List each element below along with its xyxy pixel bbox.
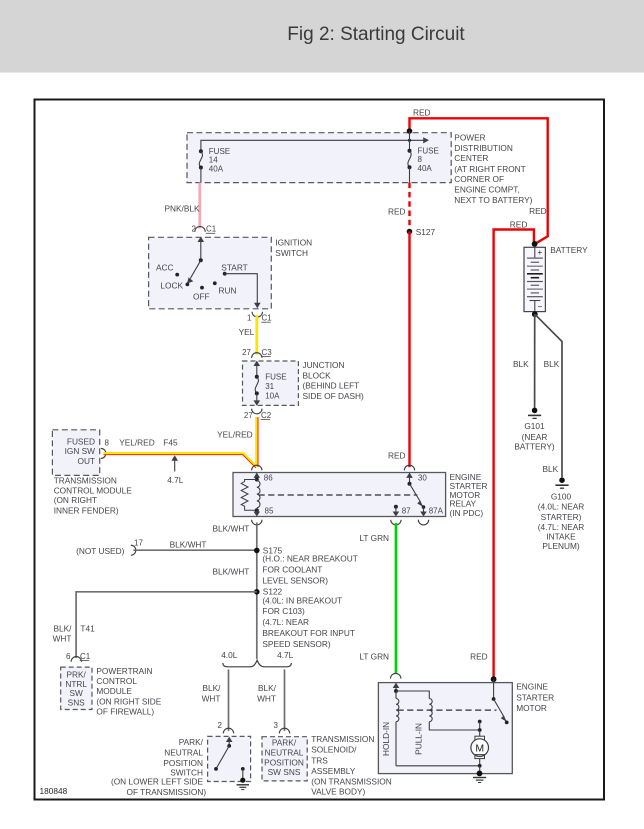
connector arc relay pin 30 — [404, 465, 414, 470]
svg-text:40A: 40A — [418, 164, 433, 173]
relay pin 87A arrow — [420, 507, 443, 517]
svg-text:4.7L: 4.7L — [277, 650, 294, 660]
TRS park neutral sw sns box — [262, 737, 307, 781]
svg-text:DISTRIBUTION: DISTRIBUTION — [454, 143, 513, 153]
connector pin 8 TCM — [101, 438, 110, 458]
svg-text:C1: C1 — [262, 314, 273, 323]
ignition switch label — [275, 238, 312, 258]
svg-text:8: 8 — [418, 155, 423, 164]
svg-text:3: 3 — [274, 721, 279, 730]
connector 17 not used — [76, 539, 143, 557]
label BLK/WHT 4.7L — [257, 683, 277, 703]
relay parallel resistor — [241, 480, 257, 511]
svg-text:M: M — [475, 742, 484, 754]
G100 label — [538, 491, 585, 551]
TCM label — [54, 476, 133, 516]
wire RED S127 to relay pin 30 — [408, 232, 410, 468]
node battery positive — [532, 241, 538, 247]
svg-text:STARTER: STARTER — [516, 692, 554, 702]
svg-text:FOR COOLANT: FOR COOLANT — [262, 565, 322, 575]
svg-text:TRANSMISSION: TRANSMISSION — [54, 476, 117, 486]
svg-text:(ON RIGHT SIDE: (ON RIGHT SIDE — [96, 697, 161, 707]
svg-text:BLK/: BLK/ — [258, 683, 277, 693]
park neutral switch arrow — [226, 737, 233, 748]
svg-text:(H.O.: NEAR BREAKOUT: (H.O.: NEAR BREAKOUT — [262, 554, 357, 564]
label BLK/WHT PCM branch — [53, 624, 73, 644]
PDC internal bus wire with arrow — [201, 137, 429, 151]
svg-text:LT GRN: LT GRN — [359, 533, 389, 543]
svg-text:SPEED SENSOR): SPEED SENSOR) — [262, 639, 330, 649]
label YEL/RED vertical wire — [217, 429, 253, 439]
svg-text:C1: C1 — [80, 652, 91, 661]
wire BLK/WHT 4.7L branch — [284, 669, 286, 731]
relay switch blade — [410, 484, 426, 509]
svg-text:VALVE BODY): VALVE BODY) — [311, 786, 365, 796]
connector arc relay pin 87 — [391, 520, 401, 525]
label BLK/WHT not used wire — [170, 539, 207, 549]
svg-text:WHT: WHT — [53, 634, 72, 644]
svg-text:IGNITION: IGNITION — [275, 238, 312, 248]
svg-text:TRS: TRS — [311, 755, 328, 765]
svg-text:WHT: WHT — [257, 693, 276, 703]
park neutral switch ground contact — [241, 767, 245, 780]
battery — [524, 247, 545, 311]
label BLK/WHT below relay — [213, 524, 250, 534]
svg-text:FUSED: FUSED — [67, 437, 95, 447]
svg-text:86: 86 — [264, 474, 273, 483]
park neutral position switch box — [208, 736, 251, 781]
svg-text:G100: G100 — [551, 491, 572, 501]
svg-text:RED: RED — [388, 206, 406, 216]
fuse 14 value label — [209, 147, 230, 174]
junction block box — [243, 361, 299, 405]
label RED right vertical — [529, 206, 547, 216]
svg-text:6: 6 — [66, 652, 71, 661]
svg-text:ENGINE: ENGINE — [516, 681, 548, 691]
svg-text:LOCK: LOCK — [160, 281, 183, 291]
svg-text:(BEHIND LEFT: (BEHIND LEFT — [303, 381, 360, 391]
svg-text:85: 85 — [265, 506, 274, 515]
label 4.0L branch — [221, 650, 238, 660]
wire RED dashed fuse8 to S127 — [408, 183, 410, 230]
svg-text:+: + — [538, 248, 543, 257]
svg-text:(IN PDC): (IN PDC) — [450, 508, 484, 518]
label RED battery horizontal — [510, 220, 528, 230]
svg-text:STARTER): STARTER) — [541, 512, 582, 522]
starter relay box — [233, 473, 446, 517]
relay dashed actuation line — [259, 494, 418, 496]
svg-text:HOLD-IN: HOLD-IN — [381, 722, 391, 756]
relay label — [450, 472, 488, 518]
svg-text:POSITION: POSITION — [264, 757, 304, 767]
ground park neutral switch — [237, 778, 249, 790]
ground G100 — [555, 477, 568, 488]
PCM label — [96, 666, 161, 716]
svg-text:180848: 180848 — [40, 786, 68, 796]
label YEL/RED F45 — [119, 437, 178, 447]
svg-text:CONTROL MODULE: CONTROL MODULE — [54, 485, 133, 495]
svg-text:YEL: YEL — [239, 327, 255, 337]
label LT GRN lower — [359, 651, 389, 661]
starter motor label — [516, 681, 554, 713]
starter switch blade — [494, 699, 509, 724]
wire RED battery to long right drop — [494, 230, 534, 680]
svg-text:TRANSMISSION: TRANSMISSION — [311, 734, 374, 744]
label RED top — [413, 108, 431, 118]
label YEL — [239, 327, 255, 337]
diagram border frame — [35, 100, 605, 800]
svg-text:ENGINE COMPT,: ENGINE COMPT, — [454, 185, 519, 195]
svg-text:C3: C3 — [262, 348, 273, 357]
svg-text:2: 2 — [218, 721, 223, 730]
label RED starter feed — [470, 651, 488, 661]
G101 label — [514, 421, 554, 452]
svg-text:RED: RED — [388, 450, 406, 460]
svg-text:CONTROL: CONTROL — [96, 676, 137, 686]
label BLK G100 wire — [543, 464, 559, 474]
svg-text:31: 31 — [265, 382, 274, 391]
wire BLK battery to G101 — [534, 314, 536, 408]
svg-text:INTAKE: INTAKE — [546, 531, 576, 541]
svg-text:BLK: BLK — [544, 359, 560, 369]
splice S175 — [254, 546, 283, 556]
svg-text:OF FIREWALL): OF FIREWALL) — [96, 707, 154, 717]
svg-text:(ON LOWER LEFT SIDE: (ON LOWER LEFT SIDE — [111, 776, 204, 786]
svg-text:RED: RED — [413, 108, 431, 118]
contact OFF — [193, 286, 210, 302]
svg-text:(4.0L: NEAR: (4.0L: NEAR — [538, 502, 585, 512]
svg-text:4.7L: 4.7L — [167, 475, 184, 485]
svg-text:NEUTRAL: NEUTRAL — [265, 748, 304, 758]
fuse 31 value label — [265, 373, 286, 401]
battery label — [550, 245, 588, 255]
svg-text:SWITCH: SWITCH — [275, 248, 308, 258]
svg-text:YEL/RED: YEL/RED — [119, 437, 155, 447]
svg-text:BLK/WHT: BLK/WHT — [213, 524, 250, 534]
label PULL-IN — [414, 723, 424, 755]
svg-text:F45: F45 — [163, 437, 178, 447]
svg-text:(NOT USED): (NOT USED) — [76, 546, 124, 556]
fuse 8 40A — [408, 131, 412, 183]
power distribution center box — [187, 133, 451, 183]
fuse 14 40A — [199, 149, 203, 182]
wire BLK/WHT not used to S175 — [133, 549, 256, 551]
svg-text:BATTERY: BATTERY — [550, 245, 588, 255]
svg-text:C2: C2 — [261, 411, 272, 420]
svg-text:LT GRN: LT GRN — [359, 651, 389, 661]
label circuit T41 — [80, 624, 95, 634]
svg-text:SW SNS: SW SNS — [268, 767, 301, 777]
svg-text:2: 2 — [192, 225, 197, 234]
svg-text:OFF: OFF — [193, 291, 210, 301]
svg-text:FOR C103): FOR C103) — [262, 606, 305, 616]
svg-text:FUSE: FUSE — [265, 373, 286, 382]
svg-text:OUT: OUT — [77, 456, 95, 466]
svg-text:(AT RIGHT FRONT: (AT RIGHT FRONT — [454, 164, 525, 174]
connector arc relay pin 86 — [252, 465, 262, 470]
splice S127 — [407, 227, 436, 237]
svg-text:87: 87 — [402, 507, 411, 516]
contact START — [221, 262, 247, 275]
svg-text:BLOCK: BLOCK — [303, 370, 332, 380]
svg-text:BLK/WHT: BLK/WHT — [170, 539, 207, 549]
svg-text:BREAKOUT FOR INPUT: BREAKOUT FOR INPUT — [262, 628, 355, 638]
svg-text:−: − — [538, 302, 543, 312]
svg-text:(ON RIGHT: (ON RIGHT — [54, 495, 97, 505]
svg-text:FUSE: FUSE — [209, 147, 230, 156]
svg-text:RED: RED — [529, 206, 547, 216]
label HOLD-IN — [381, 722, 391, 756]
svg-text:(4.0L: IN BREAKOUT: (4.0L: IN BREAKOUT — [262, 595, 342, 605]
contact RUN — [213, 281, 237, 295]
contact LOCK — [160, 281, 189, 291]
starter dashed actuation line — [398, 709, 497, 711]
svg-text:4.0L: 4.0L — [221, 650, 238, 660]
junction dot bus over fuse 8 — [408, 139, 411, 142]
svg-text:27: 27 — [242, 348, 251, 357]
svg-text:SIDE OF DASH): SIDE OF DASH) — [303, 391, 365, 401]
engine starter motor box — [378, 683, 512, 774]
pull-in coil — [396, 691, 480, 730]
label LT GRN upper — [359, 533, 389, 543]
svg-text:BLK/WHT: BLK/WHT — [213, 566, 250, 576]
hold-in coil — [396, 691, 399, 766]
PCM prk ntrl sw sns box — [61, 667, 92, 709]
connector arc starter solenoid — [391, 673, 401, 678]
svg-text:27: 27 — [244, 411, 253, 420]
S122 note — [262, 595, 355, 649]
connector arc relay pin 85 — [252, 520, 262, 525]
svg-text:POWER: POWER — [454, 132, 485, 142]
park neutral switch label — [111, 737, 206, 797]
svg-text:START: START — [221, 262, 247, 272]
svg-text:S127: S127 — [416, 227, 436, 237]
svg-text:LEVEL SENSOR): LEVEL SENSOR) — [262, 575, 328, 585]
svg-text:FUSE: FUSE — [418, 146, 439, 155]
svg-text:(NEAR: (NEAR — [522, 432, 548, 442]
svg-text:1: 1 — [247, 314, 252, 323]
connector 27 C2 junction block bottom — [244, 409, 272, 420]
starter bottom rail — [396, 764, 482, 774]
wire YEL/RED junction block to relay — [257, 417, 259, 467]
fuse 31 10A — [255, 375, 259, 396]
svg-text:PARK/: PARK/ — [179, 737, 204, 747]
relay coil winding — [257, 480, 260, 507]
wire BLK/WHT 4.0L branch — [228, 669, 230, 731]
starter switch contact — [492, 679, 496, 701]
starter motor contact — [478, 720, 482, 737]
engine option arrow 4.7L — [167, 455, 184, 485]
node battery feed on PDC edge — [407, 128, 413, 134]
svg-text:RED: RED — [510, 220, 528, 230]
ground G101 — [528, 408, 541, 419]
svg-text:RED: RED — [470, 651, 488, 661]
svg-text:PULL-IN: PULL-IN — [414, 723, 424, 755]
relay pin 86 arrow — [254, 473, 274, 483]
svg-text:MOTOR: MOTOR — [516, 703, 547, 713]
label RED above S127 — [388, 206, 406, 216]
wire BLK/WHT relay 85 to S175 S122 and split — [256, 523, 258, 659]
svg-text:ACC: ACC — [156, 262, 174, 272]
svg-text:CORNER OF: CORNER OF — [454, 174, 504, 184]
relay pin 87 — [393, 505, 412, 517]
wire YEL ignition to junction block — [255, 315, 258, 355]
junction block feed arrow — [254, 361, 261, 377]
svg-text:YEL/RED: YEL/RED — [217, 429, 253, 439]
splice S122 — [254, 587, 283, 597]
junction block output arrow — [254, 393, 261, 405]
svg-text:MODULE: MODULE — [96, 686, 132, 696]
label BLK left — [513, 359, 529, 369]
svg-text:40A: 40A — [209, 164, 224, 173]
node starter red feed — [491, 676, 497, 682]
connector 27 C3 junction block top — [242, 348, 272, 358]
connector 2 park neutral switch — [218, 721, 234, 734]
ignition rotor pivot — [199, 258, 203, 262]
svg-text:SOLENOID/: SOLENOID/ — [311, 745, 357, 755]
connector 2 C1 ignition top — [192, 225, 217, 234]
wire PNK/BLK fuse14 to ignition switch — [198, 183, 201, 229]
svg-text:JUNCTION: JUNCTION — [303, 360, 345, 370]
starter solenoid feed arrow — [393, 683, 400, 693]
connector arc relay pin 87A — [418, 520, 428, 525]
ignition rotor blade — [187, 260, 201, 283]
svg-text:CENTER: CENTER — [454, 153, 488, 163]
wire BLK/WHT S122 to PCM — [76, 592, 257, 658]
relay pin 30 arrow — [406, 473, 427, 486]
label PNK/BLK — [165, 203, 201, 213]
svg-text:(4.7L: NEAR: (4.7L: NEAR — [262, 617, 309, 627]
wire LT GRN relay 87 to starter — [395, 523, 398, 674]
TCM fused ign sw out box — [52, 430, 99, 476]
svg-text:INNER FENDER): INNER FENDER) — [54, 506, 119, 516]
svg-text:BLK/: BLK/ — [203, 683, 222, 693]
svg-text:C1: C1 — [206, 225, 217, 234]
fuse 8 value label — [418, 146, 439, 173]
node battery negative — [532, 311, 538, 317]
contact ACC — [156, 262, 179, 276]
TRS label — [311, 734, 392, 796]
connector 6 C1 PCM — [66, 652, 91, 662]
title bar — [0, 0, 644, 73]
PDC label text — [454, 132, 532, 205]
svg-text:BATTERY): BATTERY) — [514, 442, 554, 452]
svg-text:10A: 10A — [265, 391, 280, 400]
label BLK right — [544, 359, 560, 369]
svg-text:POWERTRAIN: POWERTRAIN — [96, 666, 152, 676]
ignition feed arrow — [198, 237, 205, 261]
svg-text:30: 30 — [418, 473, 427, 482]
ignition start output wire — [225, 274, 261, 309]
wire BLK battery to G100 — [535, 314, 562, 477]
svg-text:8: 8 — [105, 438, 110, 447]
svg-text:G101: G101 — [524, 421, 545, 431]
junction block label — [303, 360, 365, 401]
wire RED battery feed top horizontal — [410, 118, 548, 244]
svg-text:RUN: RUN — [219, 285, 237, 295]
relay pin 85 — [254, 506, 274, 516]
wire YEL/RED TCM to relay pin 86 — [104, 453, 257, 468]
svg-text:WHT: WHT — [202, 693, 221, 703]
figure number 180848 — [40, 786, 68, 796]
svg-text:ASSEMBLY: ASSEMBLY — [311, 766, 356, 776]
motor M — [471, 736, 489, 766]
connector 3 TRS — [274, 721, 290, 734]
label RED relay feed — [388, 450, 406, 460]
svg-text:17: 17 — [134, 539, 143, 548]
svg-text:BLK/: BLK/ — [54, 624, 73, 634]
S175 note — [262, 554, 357, 586]
engine split brace — [223, 660, 292, 667]
svg-text:BLK: BLK — [513, 359, 529, 369]
svg-text:87A: 87A — [429, 507, 444, 516]
svg-text:(ON TRANSMISSION: (ON TRANSMISSION — [311, 776, 392, 786]
ignition switch box — [149, 237, 272, 308]
svg-text:Fig 2: Starting Circuit: Fig 2: Starting Circuit — [287, 24, 465, 45]
label BLK/WHT 4.0L — [202, 683, 222, 703]
svg-text:SNS: SNS — [68, 698, 86, 708]
svg-text:PARK/: PARK/ — [272, 737, 297, 747]
ground starter motor — [473, 771, 486, 783]
label 4.7L branch — [277, 650, 294, 660]
label BLK/WHT between splices — [213, 566, 250, 576]
svg-text:NEUTRAL: NEUTRAL — [164, 748, 203, 758]
svg-text:BLK: BLK — [543, 464, 559, 474]
svg-text:14: 14 — [209, 156, 218, 165]
svg-text:IGN SW: IGN SW — [65, 446, 96, 456]
svg-text:NEXT TO BATTERY): NEXT TO BATTERY) — [454, 195, 532, 205]
park neutral switch blade — [214, 746, 229, 771]
svg-text:T41: T41 — [80, 624, 95, 634]
svg-text:PLENUM): PLENUM) — [542, 541, 580, 551]
svg-text:PNK/BLK: PNK/BLK — [165, 203, 201, 213]
svg-text:OF TRANSMISSION): OF TRANSMISSION) — [126, 787, 206, 797]
connector 1 C1 ignition bottom — [247, 312, 272, 323]
